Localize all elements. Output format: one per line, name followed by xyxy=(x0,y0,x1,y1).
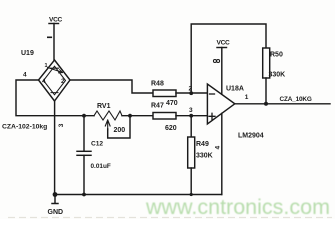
op-amp U18A triangle xyxy=(207,84,234,124)
minus sign (op-amp) xyxy=(210,93,215,95)
svg-text:R50: R50 xyxy=(270,52,283,59)
resistor R48 xyxy=(151,81,178,108)
output wire pin 1 xyxy=(235,103,330,105)
pin 1 label (bridge top) xyxy=(48,36,52,38)
svg-text:1: 1 xyxy=(245,94,249,101)
wire VCC to bridge top xyxy=(53,24,55,61)
wire R47 to op-amp plus input xyxy=(176,115,207,117)
potentiometer RV1 xyxy=(94,103,122,120)
svg-text:620: 620 xyxy=(165,125,177,132)
wire R48 to op-amp minus input xyxy=(176,92,207,94)
wire VCC to op-amp pin 8 xyxy=(221,48,223,95)
ground symbol GND xyxy=(48,195,64,217)
wire R50 bottom to output xyxy=(265,78,267,104)
wire plus input down to R49 xyxy=(190,116,192,137)
resistor R50 xyxy=(263,48,286,79)
wire bridge pin3 down to ground xyxy=(54,101,56,195)
svg-text:LM2904: LM2904 xyxy=(238,133,264,140)
svg-text:0.01uF: 0.01uF xyxy=(91,163,111,170)
svg-text:U18A: U18A xyxy=(226,86,244,93)
wiper arrow RV1 xyxy=(105,120,110,130)
svg-text:U19: U19 xyxy=(21,50,34,57)
svg-text:2: 2 xyxy=(61,78,65,85)
svg-text:4: 4 xyxy=(215,146,222,150)
junction node ground left xyxy=(53,192,58,197)
junction node minus input xyxy=(189,91,193,95)
capacitor C12 xyxy=(77,116,111,195)
svg-text:3: 3 xyxy=(58,123,65,127)
svg-text:R48: R48 xyxy=(151,81,164,88)
junction node C12 bottom xyxy=(82,193,86,197)
svg-text:4: 4 xyxy=(23,72,27,79)
junction node output / R50 xyxy=(264,102,268,106)
pin 8 label (rotated) xyxy=(213,60,219,63)
power VCC (left supply) xyxy=(49,17,63,24)
svg-text:R47: R47 xyxy=(151,103,164,110)
bridge sensor U19 inner diamond xyxy=(44,66,66,95)
wire op-amp pin 4 to ground rail xyxy=(221,113,223,194)
power VCC (op-amp pin 8) xyxy=(217,40,231,48)
svg-text:www.cntronics.com: www.cntronics.com xyxy=(145,195,330,219)
svg-text:CZA-102-10kg: CZA-102-10kg xyxy=(2,124,47,131)
plus sign (op-amp) xyxy=(209,113,215,119)
strain arrow inside bridge xyxy=(48,68,63,73)
junction node plus input xyxy=(189,114,193,118)
resistor R49 xyxy=(188,137,213,168)
junction node C12 top xyxy=(82,114,86,118)
junction node R49 ground xyxy=(190,193,193,196)
svg-text:330K: 330K xyxy=(269,72,286,79)
svg-text:1: 1 xyxy=(45,63,48,69)
svg-text:470: 470 xyxy=(166,100,178,107)
wire bridge pin2 to R48 (with jog) xyxy=(70,80,153,93)
wire feedback net (minus input up and across to R50) xyxy=(191,24,266,93)
wire R49 to ground rail xyxy=(190,168,192,195)
svg-text:CZA_10KG: CZA_10KG xyxy=(280,96,312,103)
svg-text:GND: GND xyxy=(48,209,64,216)
svg-text:R49: R49 xyxy=(196,141,209,148)
svg-text:200: 200 xyxy=(114,127,126,134)
junction node RV1 right terminal xyxy=(128,114,132,118)
svg-text:VCC: VCC xyxy=(217,40,231,47)
wire bridge pin4 to plus row xyxy=(16,80,94,116)
bottom scan edge xyxy=(8,217,332,219)
svg-text:VCC: VCC xyxy=(49,17,63,24)
bridge sensor U19 outer diamond xyxy=(39,60,71,101)
svg-text:330K: 330K xyxy=(196,153,213,160)
wire RV1 to R47 xyxy=(122,115,153,117)
wiper loop wire RV1 xyxy=(108,116,130,138)
svg-text:4: 4 xyxy=(42,78,46,85)
svg-text:C12: C12 xyxy=(91,141,103,148)
svg-text:3: 3 xyxy=(189,107,193,114)
ground rail wire xyxy=(55,194,222,196)
svg-text:RV1: RV1 xyxy=(97,103,111,110)
resistor R47 xyxy=(151,103,177,133)
